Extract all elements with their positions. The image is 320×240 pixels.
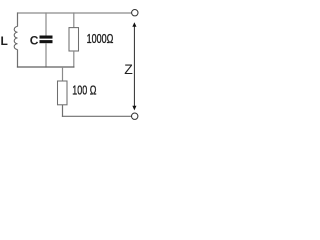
wire top rail [18, 12, 132, 14]
wire capacitor branch upper [45, 12, 47, 35]
wire capacitor branch lower [45, 43, 47, 67]
wire 100-ohm branch upper [62, 67, 64, 81]
wire left branch lower [17, 50, 19, 68]
resistor 1000 ohm [69, 28, 79, 51]
terminal top [132, 10, 138, 16]
svg-text:Z: Z [124, 61, 133, 77]
wire left branch upper [17, 12, 19, 26]
terminal bottom [132, 113, 138, 119]
capacitor C top plate [40, 36, 53, 39]
svg-text:100 Ω: 100 Ω [72, 83, 96, 98]
capacitor C bottom plate [40, 40, 53, 43]
resistor 100 ohm [58, 81, 68, 105]
wire middle rail [17, 66, 75, 68]
svg-text:1000Ω: 1000Ω [87, 31, 114, 46]
wire 1000-ohm branch lower [73, 51, 75, 68]
arrowhead up [132, 22, 136, 27]
measurement arrow line [133, 26, 135, 107]
wire 100-ohm branch lower [62, 105, 64, 117]
svg-text:C: C [30, 34, 39, 48]
wire bottom rail [62, 115, 132, 117]
arrowhead down [132, 106, 136, 111]
inductor L [14, 27, 17, 50]
wire 1000-ohm branch upper [73, 12, 75, 27]
svg-text:L: L [1, 34, 8, 48]
